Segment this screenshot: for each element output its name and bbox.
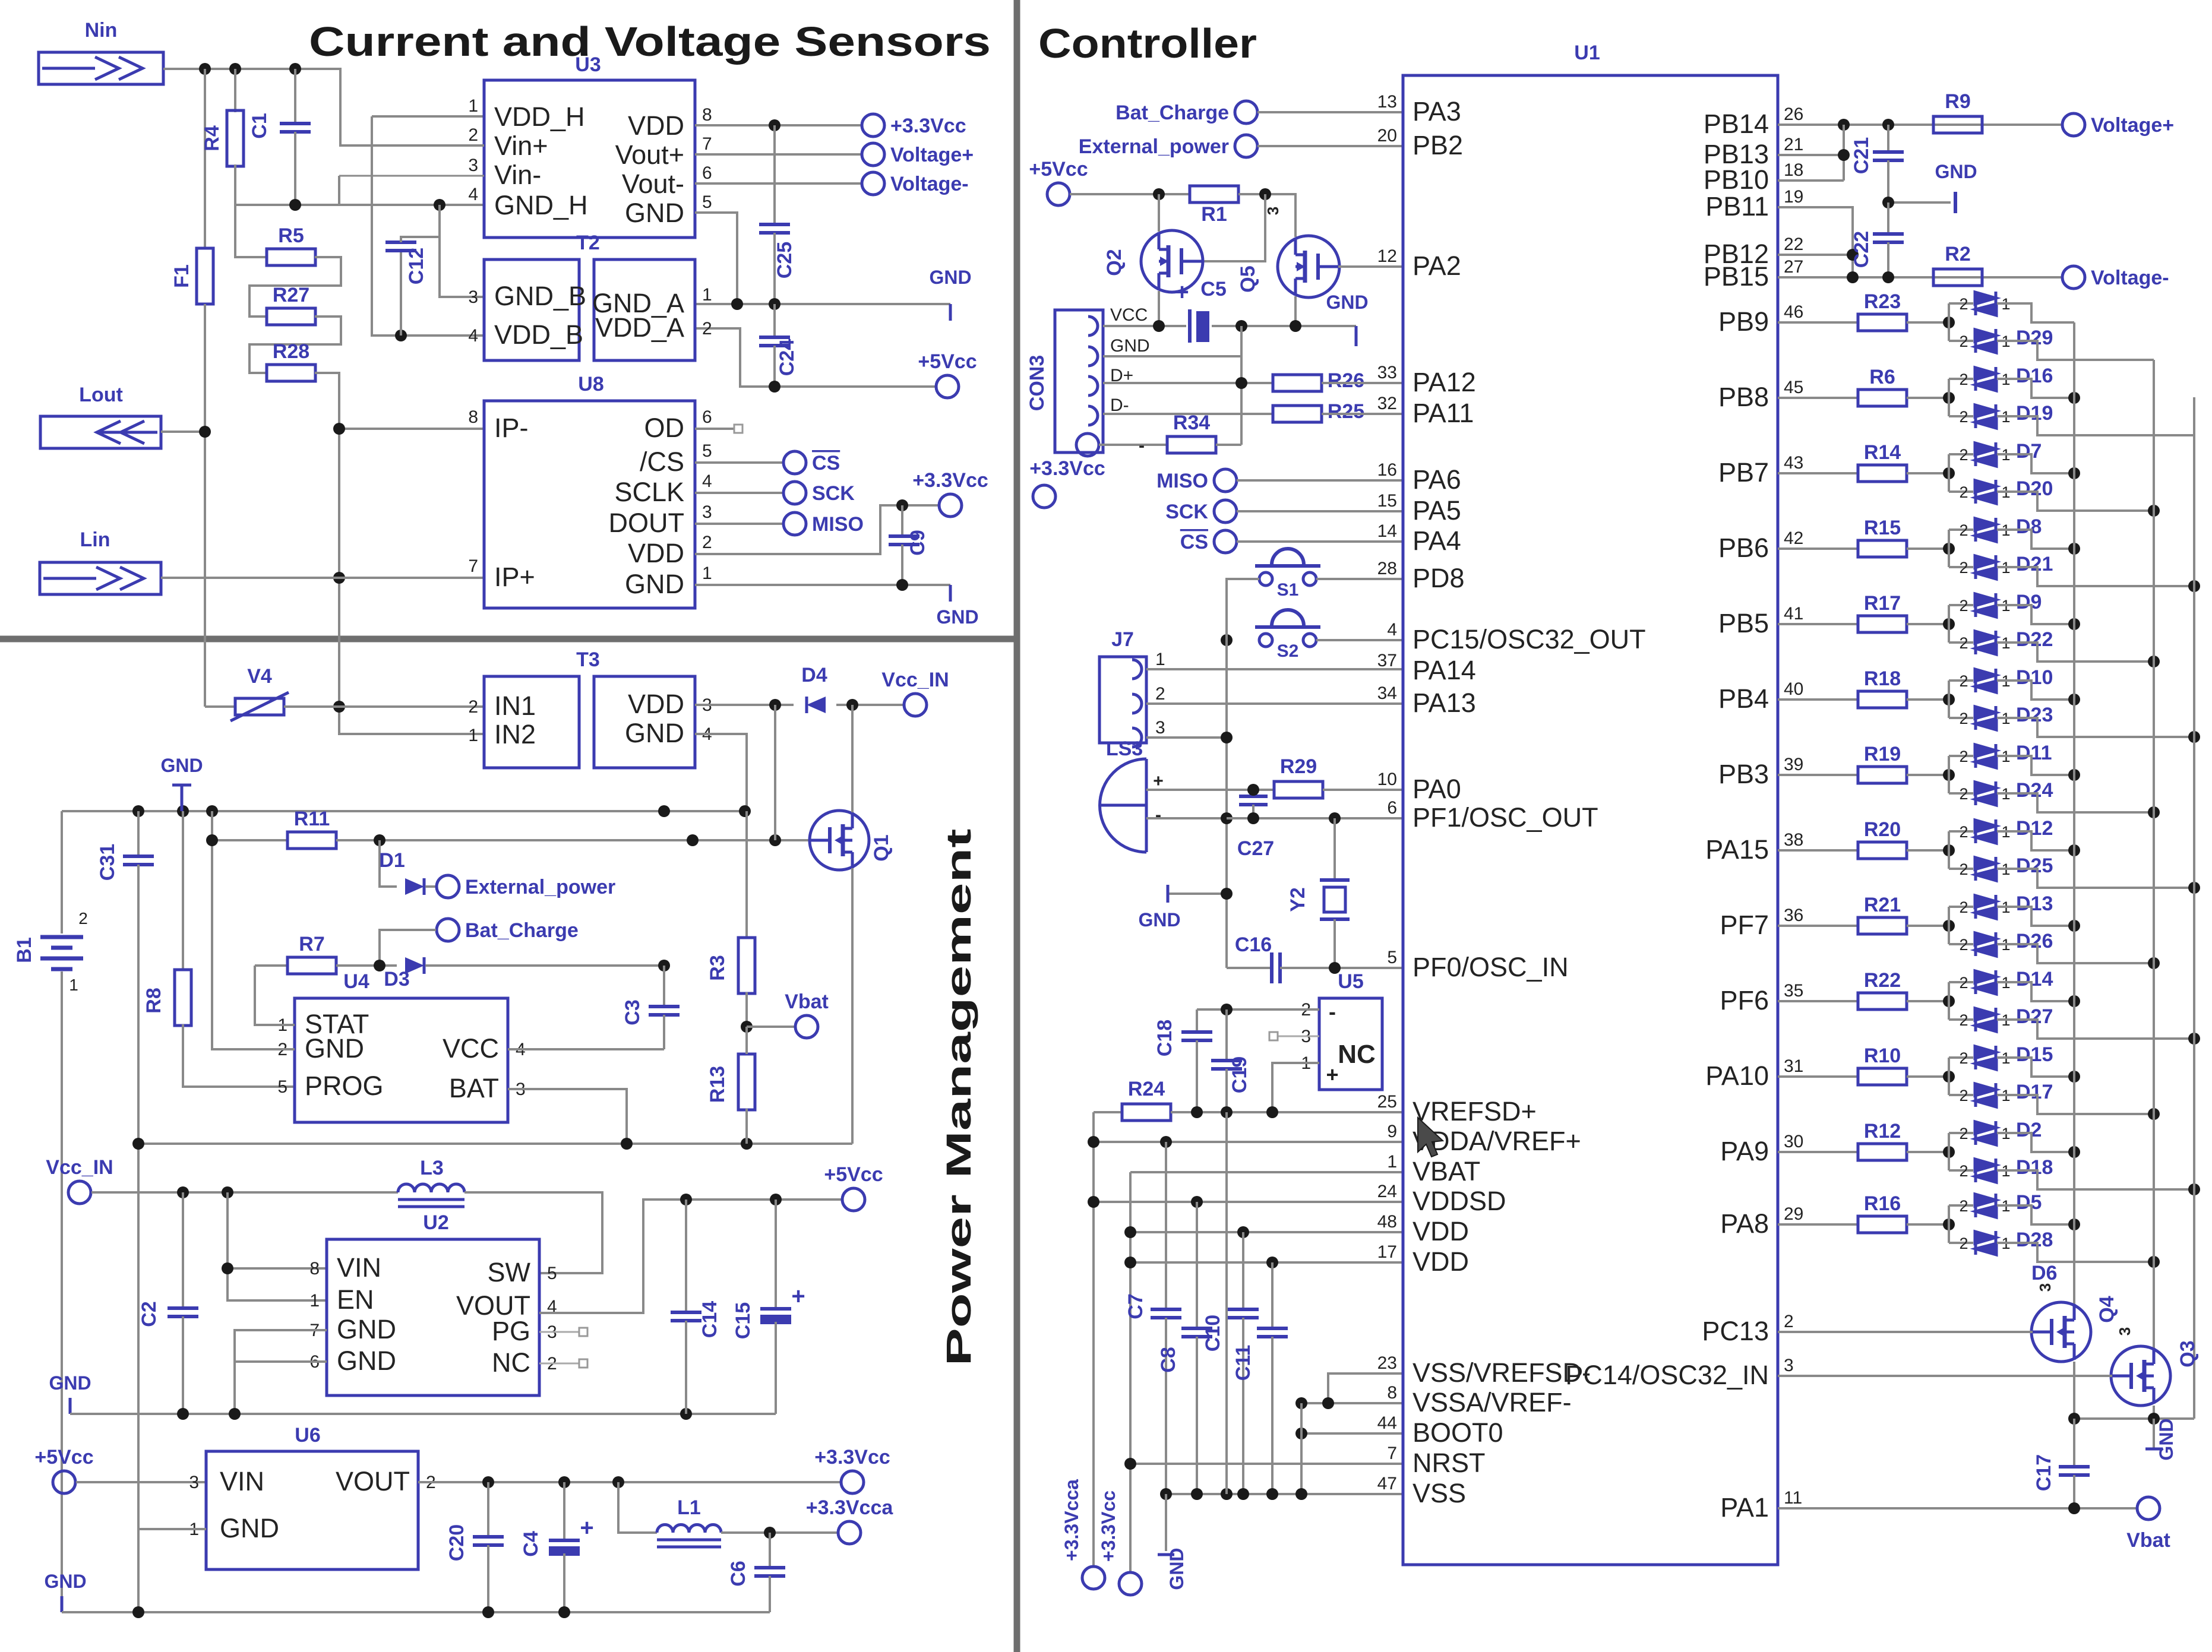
junction C9 bottom xyxy=(896,579,908,591)
svg-text:PB9: PB9 xyxy=(1718,306,1769,337)
wire VREFSD+ row xyxy=(1171,1111,1403,1113)
junction C17 bottom xyxy=(2068,1502,2080,1514)
junction Nin-R4 xyxy=(229,63,241,75)
junction C18 bottom xyxy=(1191,1106,1203,1118)
wire S1 xyxy=(1316,578,1403,580)
svg-text:PD8: PD8 xyxy=(1412,563,1465,593)
IC U5 xyxy=(1319,998,1382,1090)
svg-text:Vbat: Vbat xyxy=(2126,1529,2170,1552)
flag +3.3Vcc power xyxy=(841,1471,864,1493)
wire U3 pin3 xyxy=(339,175,484,177)
capacitor C27 xyxy=(1252,790,1254,796)
svg-text:GND: GND xyxy=(936,606,978,628)
LED D2 xyxy=(1949,1132,1973,1134)
svg-text:1: 1 xyxy=(702,285,712,305)
junction gnd bus xyxy=(1221,888,1233,900)
junction bus R16 xyxy=(2148,1256,2160,1268)
svg-text:PA5: PA5 xyxy=(1412,495,1461,526)
junction bus R22 xyxy=(2188,1033,2200,1045)
svg-text:16: 16 xyxy=(1377,460,1397,480)
svg-text:2: 2 xyxy=(1959,408,1968,426)
svg-text:D6: D6 xyxy=(2031,1262,2057,1284)
svg-text:R15: R15 xyxy=(1864,517,1901,539)
bus +3.3Vcca vertical xyxy=(1092,1112,1095,1566)
flag Bat_Charge left xyxy=(437,919,459,941)
svg-text:C12: C12 xyxy=(405,248,428,284)
junction U5pin1 xyxy=(1266,1106,1278,1118)
svg-text:R8: R8 xyxy=(143,988,165,1013)
junction C9 top xyxy=(896,499,908,511)
svg-text:R22: R22 xyxy=(1864,969,1901,992)
wire L3 to SW xyxy=(464,1192,602,1273)
speaker LS3 xyxy=(1100,759,1147,852)
svg-text:28: 28 xyxy=(1377,559,1397,578)
svg-text:2: 2 xyxy=(1959,1125,1968,1143)
svg-text:J7: J7 xyxy=(1111,628,1134,651)
svg-text:D12: D12 xyxy=(2016,817,2053,840)
ground U8 GND xyxy=(949,585,952,602)
svg-text:R20: R20 xyxy=(1864,818,1901,841)
junction bus1 R10 xyxy=(2068,1071,2080,1083)
svg-text:GND: GND xyxy=(1935,161,1977,182)
svg-text:2: 2 xyxy=(1959,634,1968,652)
svg-text:R13: R13 xyxy=(706,1066,729,1103)
svg-text:D2: D2 xyxy=(2016,1119,2042,1141)
junction nrst bus xyxy=(1124,1458,1136,1470)
svg-text:VDD_B: VDD_B xyxy=(494,319,583,350)
svg-text:C14: C14 xyxy=(699,1301,721,1338)
junction Vbat xyxy=(741,1021,753,1033)
junction row1415 b xyxy=(769,834,781,846)
svg-text:GND: GND xyxy=(1110,336,1150,356)
svg-text:CS: CS xyxy=(1180,531,1208,553)
svg-text:2: 2 xyxy=(78,909,88,928)
svg-text:T3: T3 xyxy=(576,648,600,671)
flag Vcc_IN left xyxy=(68,1181,91,1204)
wire R1 to Q2 gate xyxy=(1202,194,1265,261)
svg-text:2: 2 xyxy=(1959,936,1968,954)
svg-text:D7: D7 xyxy=(2016,440,2042,463)
svg-text:D4: D4 xyxy=(801,664,827,686)
svg-text:C1: C1 xyxy=(248,113,271,138)
svg-text:C11: C11 xyxy=(1232,1345,1254,1381)
svg-text:L3: L3 xyxy=(420,1157,444,1179)
ground GND right top xyxy=(1954,192,1957,213)
capacitor C2 xyxy=(182,1192,184,1308)
svg-text:+3.3Vcc: +3.3Vcc xyxy=(814,1446,890,1469)
svg-text:C3: C3 xyxy=(621,999,644,1025)
LED D8 xyxy=(1949,528,1973,531)
wire U3 pin1 to VDD_B xyxy=(372,115,484,118)
svg-text:GND_H: GND_H xyxy=(494,190,588,220)
svg-text:PA3: PA3 xyxy=(1412,96,1461,126)
wire VSS23 route xyxy=(1328,1373,1403,1403)
svg-text:Vbat: Vbat xyxy=(785,990,829,1013)
junction gndrow C14 xyxy=(680,1408,692,1420)
wire L1 branch xyxy=(618,1482,657,1533)
wire LED stub R21 xyxy=(1948,907,1950,944)
svg-text:D5: D5 xyxy=(2016,1191,2042,1214)
svg-text:C27: C27 xyxy=(1237,837,1274,860)
svg-text:3: 3 xyxy=(1155,718,1165,738)
flag +5Vcc ctrl xyxy=(1047,183,1070,205)
inductor L1 xyxy=(657,1525,721,1547)
svg-text:1: 1 xyxy=(468,96,478,116)
svg-text:MISO: MISO xyxy=(812,513,864,536)
junction C22 bottom xyxy=(1882,271,1894,283)
svg-text:NC: NC xyxy=(1338,1040,1376,1069)
svg-text:+: + xyxy=(1326,1062,1338,1087)
svg-text:-: - xyxy=(1155,805,1161,825)
resistor R29 xyxy=(1274,781,1323,798)
junction R28-IPminus xyxy=(333,423,345,435)
wire BOOT0 row xyxy=(1301,1432,1403,1435)
junction gndrow C2 xyxy=(177,1408,189,1420)
junction bus1 R22 xyxy=(2068,995,2080,1007)
svg-text:D18: D18 xyxy=(2016,1156,2053,1179)
junction gndrow U2 xyxy=(229,1408,241,1420)
IC U4 xyxy=(295,998,508,1122)
junction R15 out xyxy=(1943,543,1955,555)
junction R20 out xyxy=(1943,844,1955,856)
svg-text:45: 45 xyxy=(1784,378,1803,397)
flag Voltage+ U3 xyxy=(862,143,884,166)
capacitor C9 xyxy=(901,505,903,536)
junction vss 2191 xyxy=(1295,1488,1307,1500)
capacitor C1 xyxy=(294,69,296,124)
svg-text:PB4: PB4 xyxy=(1718,683,1769,714)
junction R21 out xyxy=(1943,920,1955,932)
svg-text:D21: D21 xyxy=(2016,553,2053,575)
flag +3.3Vcc U3 xyxy=(862,114,884,137)
wire LED stub R22 xyxy=(1948,982,1950,1020)
svg-text:R11: R11 xyxy=(294,808,330,830)
junction vdda bus xyxy=(1088,1136,1099,1148)
wire bus to vss xyxy=(1225,1112,1228,1494)
junction Y2 bottom xyxy=(1329,962,1341,974)
junction row1926 BAT xyxy=(621,1138,633,1150)
wire Q2 source xyxy=(1158,291,1160,326)
svg-text:1: 1 xyxy=(69,976,78,994)
svg-text:1: 1 xyxy=(309,1291,320,1311)
svg-text:PG: PG xyxy=(492,1316,530,1346)
svg-text:GND: GND xyxy=(337,1346,396,1376)
svg-text:VSS: VSS xyxy=(1412,1478,1466,1508)
junction Lin xyxy=(333,572,345,584)
wire PB10 xyxy=(1778,179,1844,182)
svg-text:GND: GND xyxy=(337,1314,396,1344)
svg-text:C31: C31 xyxy=(96,844,119,881)
resistor R14 xyxy=(1778,472,1858,474)
svg-text:Vcc_IN: Vcc_IN xyxy=(46,1156,113,1179)
svg-text:3: 3 xyxy=(1264,207,1282,215)
junction brow C31 xyxy=(132,1606,144,1618)
junction vss C8 xyxy=(1191,1488,1203,1500)
resistor R23 xyxy=(1778,321,1858,324)
LED D11 xyxy=(1949,755,1973,757)
svg-text:2: 2 xyxy=(1959,710,1968,727)
junction F1-Lout xyxy=(199,426,211,438)
LED D22 xyxy=(1949,641,1973,644)
junction R1 right xyxy=(1259,188,1271,200)
wire U3 pin2 xyxy=(342,144,484,147)
svg-text:17: 17 xyxy=(1377,1242,1397,1262)
svg-text:D11: D11 xyxy=(2016,742,2052,764)
svg-text:12: 12 xyxy=(1377,246,1397,266)
svg-text:B1: B1 xyxy=(13,937,36,963)
junction LS3 bus xyxy=(1221,812,1233,824)
svg-text:F1: F1 xyxy=(170,264,193,288)
resistor R34 xyxy=(1167,436,1216,453)
svg-text:+: + xyxy=(791,1283,805,1309)
wire VCC to C3 xyxy=(508,1048,664,1050)
svg-text:C16: C16 xyxy=(1235,933,1272,956)
junction S2 bus xyxy=(1221,634,1233,646)
svg-text:14: 14 xyxy=(1377,521,1397,541)
svg-text:Controller: Controller xyxy=(1038,20,1257,67)
svg-text:U6: U6 xyxy=(295,1424,320,1447)
junction Q5-VCC xyxy=(1290,320,1301,332)
svg-text:R28: R28 xyxy=(273,340,309,363)
svg-text:PB2: PB2 xyxy=(1412,130,1463,160)
ground GND left mid xyxy=(69,1398,72,1414)
wire S2 xyxy=(1316,639,1403,641)
svg-text:SW: SW xyxy=(488,1257,531,1287)
svg-text:33: 33 xyxy=(1377,363,1397,382)
wire U2 GND pins xyxy=(235,1330,327,1414)
svg-text:PA8: PA8 xyxy=(1720,1208,1769,1239)
svg-text:D24: D24 xyxy=(2016,779,2053,802)
wire Q3 source xyxy=(2153,1406,2155,1419)
resistor R2 xyxy=(1933,269,1982,286)
junction bus1 R20 xyxy=(2068,844,2080,856)
svg-text:R27: R27 xyxy=(273,284,309,306)
junction bus1 R21 xyxy=(2068,920,2080,932)
svg-text:2: 2 xyxy=(1959,597,1968,615)
wire PB13 xyxy=(1778,154,1844,156)
junction bus1 R15 xyxy=(2068,543,2080,555)
LED D26 xyxy=(1949,943,1973,945)
wire bottom GND row xyxy=(62,1611,770,1613)
svg-text:2: 2 xyxy=(1959,521,1968,539)
capacitor C24 xyxy=(773,304,776,337)
svg-text:PC15/OSC32_OUT: PC15/OSC32_OUT xyxy=(1412,624,1646,654)
wire PB11 xyxy=(1778,207,1853,277)
junction Q2 top xyxy=(1153,188,1165,200)
svg-text:C18: C18 xyxy=(1154,1020,1176,1056)
wire VIN EN xyxy=(227,1192,327,1268)
ground GND ctrl bottom xyxy=(1165,1494,1167,1551)
svg-text:+: + xyxy=(1175,279,1189,305)
junction C15 top xyxy=(770,1194,782,1205)
svg-text:R2: R2 xyxy=(1945,243,1970,265)
resistor R27 xyxy=(267,308,315,325)
svg-text:C25: C25 xyxy=(773,242,796,279)
flag +5Vcc sensors xyxy=(936,375,959,398)
connector Lin xyxy=(40,562,161,594)
svg-text:SCLK: SCLK xyxy=(614,477,684,507)
resistor R26 xyxy=(1273,375,1322,391)
junction row1926 R13 xyxy=(741,1138,753,1150)
svg-text:R26: R26 xyxy=(1328,369,1364,392)
wire J7 pin3 xyxy=(1146,736,1227,739)
junction C25-GNDA xyxy=(769,298,780,310)
svg-text:PB15: PB15 xyxy=(1704,261,1769,292)
svg-text:EN: EN xyxy=(337,1284,374,1315)
wire PC14 to Q3 gate xyxy=(1778,1375,2112,1377)
svg-text:19: 19 xyxy=(1784,187,1803,207)
junction C19 bottom xyxy=(1221,1106,1233,1118)
svg-text:C24: C24 xyxy=(776,339,798,376)
svg-text:4: 4 xyxy=(468,185,478,204)
svg-text:External_power: External_power xyxy=(465,876,615,898)
junction R17 out xyxy=(1943,618,1955,630)
wire External_power to PB2 xyxy=(1257,145,1403,147)
svg-text:C7: C7 xyxy=(1124,1293,1147,1319)
svg-text:D1: D1 xyxy=(379,849,405,872)
junction pb11-pb12 xyxy=(1847,249,1859,261)
wire GND_H row (U3 pin4) xyxy=(235,204,484,206)
junction J7 bus xyxy=(1221,732,1233,743)
svg-text:R23: R23 xyxy=(1864,290,1901,313)
svg-text:1: 1 xyxy=(468,726,478,745)
svg-text:D16: D16 xyxy=(2016,365,2053,387)
svg-text:3: 3 xyxy=(468,156,478,175)
svg-text:SCK: SCK xyxy=(812,482,855,505)
svg-text:PB7: PB7 xyxy=(1718,457,1769,488)
svg-text:D29: D29 xyxy=(2016,327,2053,349)
svg-text:C6: C6 xyxy=(727,1561,750,1586)
MOSFET Q2 xyxy=(1141,230,1203,292)
svg-text:34: 34 xyxy=(1377,683,1397,703)
LED D19 xyxy=(1949,415,1973,417)
junction R23 out xyxy=(1943,317,1955,328)
junction D4 right xyxy=(846,699,858,711)
svg-text:PF0/OSC_IN: PF0/OSC_IN xyxy=(1412,952,1569,982)
svg-text:U3: U3 xyxy=(575,53,601,76)
junction bus1 R14 xyxy=(2068,467,2080,479)
svg-text:3: 3 xyxy=(468,287,478,307)
svg-text:2: 2 xyxy=(1959,672,1968,690)
svg-text:OD: OD xyxy=(644,413,685,443)
resistor R11 xyxy=(212,811,287,840)
wire Q4 source xyxy=(2073,1362,2075,1419)
capacitor C18 xyxy=(1196,1009,1198,1032)
diode D1 xyxy=(380,840,397,887)
svg-text:PC13: PC13 xyxy=(1702,1316,1769,1346)
svg-text:D25: D25 xyxy=(2016,855,2053,877)
LED D27 xyxy=(1949,1018,1973,1021)
junction Q2-VCC xyxy=(1153,320,1165,332)
wire D- row xyxy=(1103,413,1273,415)
LED D25 xyxy=(1949,868,1973,870)
svg-text:PA10: PA10 xyxy=(1705,1061,1769,1091)
svg-text:11: 11 xyxy=(1784,1488,1802,1508)
svg-text:Q3: Q3 xyxy=(2176,1340,2199,1367)
junction R7-D3 xyxy=(374,960,385,971)
svg-text:D-: D- xyxy=(1110,395,1129,415)
svg-text:2: 2 xyxy=(1959,1049,1968,1067)
svg-text:C4: C4 xyxy=(520,1531,542,1557)
svg-text:Q5: Q5 xyxy=(1237,265,1259,292)
capacitor C3 xyxy=(663,966,665,1007)
svg-text:GND_B: GND_B xyxy=(494,281,586,311)
svg-text:Voltage+: Voltage+ xyxy=(2091,114,2174,137)
svg-text:R34: R34 xyxy=(1173,412,1210,434)
svg-text:PA13: PA13 xyxy=(1412,688,1476,718)
svg-text:D26: D26 xyxy=(2016,930,2053,952)
LED D16 xyxy=(1949,378,1973,380)
junction row1366 C3 xyxy=(658,805,670,817)
svg-text:46: 46 xyxy=(1784,302,1803,322)
wire VDD pin8 to 3.3V xyxy=(695,124,861,126)
switch S1 xyxy=(1259,572,1272,586)
LED D10 xyxy=(1949,679,1973,682)
svg-text:D13: D13 xyxy=(2016,893,2053,915)
svg-text:GND: GND xyxy=(220,1513,279,1543)
svg-text:PA6: PA6 xyxy=(1412,464,1461,495)
flag MISO ctrl xyxy=(1214,469,1237,492)
MOSFET Q5 xyxy=(1278,236,1339,298)
svg-text:C10: C10 xyxy=(1202,1315,1224,1352)
junction boot0 xyxy=(1295,1428,1307,1439)
section divider horizontal xyxy=(0,636,1015,643)
svg-text:32: 32 xyxy=(1377,394,1397,413)
svg-text:4: 4 xyxy=(1387,620,1397,640)
transformer T3 xyxy=(484,676,579,768)
svg-text:Y2: Y2 xyxy=(1287,887,1309,912)
junction brow C4 xyxy=(558,1606,570,1618)
svg-text:MISO: MISO xyxy=(1156,470,1208,492)
wire +5Vcc to R1 xyxy=(1070,193,1190,195)
resistor R1 xyxy=(1190,186,1238,202)
wire CS xyxy=(1237,540,1403,543)
wire +5Vcc to U6 xyxy=(76,1481,206,1483)
svg-text:PC14/OSC32_IN: PC14/OSC32_IN xyxy=(1565,1360,1769,1390)
capacitor C19 xyxy=(1225,1009,1228,1061)
svg-text:2: 2 xyxy=(1155,684,1165,704)
svg-text:NRST: NRST xyxy=(1412,1448,1486,1478)
transformer T2 xyxy=(484,259,579,360)
capacitor C17 xyxy=(2073,1419,2075,1467)
flag +3.3Vcc U8 xyxy=(939,494,962,517)
capacitor C16 xyxy=(1227,967,1272,969)
svg-text:2: 2 xyxy=(468,125,478,145)
svg-text:C9: C9 xyxy=(906,530,929,555)
flag CS ctrl xyxy=(1214,530,1237,553)
svg-text:Vcc_IN: Vcc_IN xyxy=(881,669,949,691)
connector Lout xyxy=(40,416,161,448)
svg-text:2: 2 xyxy=(702,533,712,552)
junction L1 branch xyxy=(612,1476,624,1488)
svg-text:T2: T2 xyxy=(576,232,600,254)
MOSFET Q1 xyxy=(810,811,869,870)
ground GND ctrl C5 xyxy=(1355,326,1358,346)
wire Q1 drain xyxy=(851,705,854,812)
resistor R12 xyxy=(1778,1151,1858,1153)
wire LED stub R12 xyxy=(1948,1133,1950,1170)
svg-text:D14: D14 xyxy=(2016,968,2053,990)
svg-text:-: - xyxy=(1139,436,1145,455)
svg-text:PF6: PF6 xyxy=(1720,985,1769,1015)
svg-text:2: 2 xyxy=(1959,1011,1968,1029)
svg-text:2: 2 xyxy=(1959,295,1968,313)
svg-text:Q1: Q1 xyxy=(870,834,893,861)
svg-text:2: 2 xyxy=(1959,1197,1968,1215)
LED D28 xyxy=(1949,1242,1973,1244)
junction vss C10 xyxy=(1237,1488,1249,1500)
svg-text:R21: R21 xyxy=(1864,894,1901,916)
